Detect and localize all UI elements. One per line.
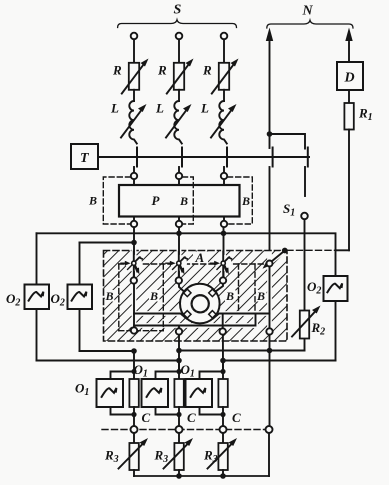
wire left col 2	[79, 243, 81, 285]
svg-text:R1: R1	[358, 106, 373, 124]
wire	[348, 90, 350, 103]
svg-text:N: N	[302, 4, 314, 19]
resistor R3 phase 1	[104, 433, 148, 476]
wire O2 left down	[36, 309, 38, 361]
tick S1	[307, 148, 309, 167]
arrow N-right	[348, 42, 350, 62]
wire N-left to C and bottom	[268, 433, 270, 476]
bus B left segment	[37, 360, 180, 362]
machine	[180, 284, 220, 324]
brush NE	[209, 289, 216, 296]
svg-text:O1: O1	[181, 362, 195, 380]
resistor R2	[300, 311, 309, 339]
N-left circles in block	[267, 261, 273, 267]
svg-text:R3: R3	[203, 448, 218, 466]
wire R1 down	[348, 130, 350, 251]
tick phase 3	[226, 148, 228, 167]
brace N	[267, 20, 353, 28]
label B winding 3	[225, 290, 236, 302]
terminal circle phase 3	[221, 33, 228, 40]
dashed bracket B3	[228, 177, 253, 224]
wire to O2 column	[336, 249, 350, 251]
label B winding 1	[105, 290, 115, 302]
svg-text:R2: R2	[311, 320, 326, 338]
svg-text:O2: O2	[6, 291, 20, 309]
phase 2 column in block	[178, 233, 180, 277]
svg-text:R: R	[157, 63, 167, 78]
terminal circle	[176, 277, 182, 283]
svg-text:T: T	[80, 151, 90, 166]
wire to NE brush	[216, 284, 224, 292]
brush NW	[184, 289, 191, 296]
box O2 right	[324, 276, 348, 301]
wire	[222, 335, 224, 372]
wire	[178, 39, 180, 63]
svg-text:S: S	[174, 3, 182, 18]
arrow N-left	[269, 42, 271, 148]
bus A left segment	[80, 350, 135, 352]
label B winding 4	[256, 290, 267, 302]
svg-text:C: C	[232, 410, 241, 425]
svg-text:B: B	[149, 289, 158, 303]
O1 assembly phase 3	[181, 361, 228, 418]
svg-text:O2: O2	[51, 291, 65, 309]
inner winding dashed lines	[119, 264, 266, 331]
contact arrows phase 1	[121, 252, 142, 278]
resistor R phase 1	[112, 59, 149, 94]
wires to C line	[133, 407, 135, 426]
resistor R3 phase 3	[203, 433, 237, 476]
svg-text:L: L	[155, 101, 164, 116]
tick N-left	[272, 148, 274, 167]
node on dashed top + diagonal arrow	[282, 248, 288, 254]
terminal circle	[176, 328, 182, 334]
svg-text:S1: S1	[283, 201, 295, 219]
P box	[119, 185, 240, 217]
svg-text:L: L	[200, 101, 209, 116]
svg-text:L: L	[110, 101, 119, 116]
svg-text:B: B	[105, 289, 114, 303]
wire	[178, 335, 180, 372]
tick phase 2	[181, 148, 183, 167]
wire y242	[80, 242, 135, 244]
svg-text:O1: O1	[75, 381, 89, 399]
label B winding 2	[149, 290, 160, 302]
svg-text:A: A	[195, 250, 205, 265]
O1 assembly phase 2	[134, 361, 184, 418]
wire	[133, 39, 135, 63]
contact arrows phase 3	[210, 252, 231, 278]
C dashed line	[102, 429, 266, 431]
label A	[193, 252, 208, 265]
bus B right segment	[223, 360, 336, 362]
block A hatched	[104, 251, 288, 342]
node phase3 bus233	[221, 231, 227, 237]
C terminals	[131, 426, 138, 433]
inductor L phase 2	[155, 90, 192, 144]
svg-text:R: R	[112, 63, 122, 78]
brush SW	[184, 311, 191, 318]
svg-text:R3: R3	[104, 448, 119, 466]
wire O2 mid down	[79, 309, 81, 351]
svg-text:B: B	[179, 194, 188, 208]
phase 3 column in block	[223, 233, 225, 277]
wire left col 1	[36, 233, 38, 284]
contact arrows phase 2	[166, 252, 187, 278]
O1 assembly phase 1	[75, 351, 139, 417]
bottom bus	[134, 475, 269, 477]
wire	[133, 284, 135, 328]
stub to bottom circle	[222, 314, 224, 329]
dashed linkage right of block	[287, 249, 336, 251]
terminal circle	[220, 277, 226, 283]
wire S1 upper stub	[304, 167, 306, 196]
wire	[223, 39, 225, 63]
box O2 mid	[68, 285, 93, 310]
box O2 left	[25, 285, 50, 310]
stub to bottom circle	[178, 326, 180, 329]
brace S	[118, 20, 237, 28]
wire w2	[134, 314, 256, 326]
svg-text:B: B	[88, 194, 97, 208]
P box terminals bottom	[133, 217, 135, 221]
svg-text:B: B	[256, 289, 265, 303]
resistor R phase 3	[202, 59, 239, 94]
inductor L phase 3	[200, 90, 237, 144]
bus y233	[37, 233, 336, 276]
P box terminals top	[133, 167, 135, 173]
wire w3 SE brush to N-left	[213, 314, 270, 319]
terminal circle phase 1	[131, 33, 138, 40]
svg-text:C: C	[187, 410, 196, 425]
terminal circle	[131, 327, 137, 333]
resistor R1	[344, 103, 353, 130]
bus	[98, 156, 309, 158]
terminal circle phase 2	[176, 33, 183, 40]
svg-text:B: B	[241, 194, 250, 208]
node phase2 bus233	[176, 231, 182, 237]
node junction N-left branch	[267, 131, 273, 137]
dashed bracket B1	[103, 177, 130, 224]
tick phase 1	[136, 148, 138, 167]
svg-text:P: P	[152, 193, 161, 208]
bus A right segment	[179, 350, 305, 352]
box T	[71, 144, 98, 169]
terminal circle	[220, 328, 226, 334]
node phase1 y242	[131, 240, 137, 246]
svg-text:B: B	[225, 289, 234, 303]
wire to NW brush	[179, 284, 184, 292]
svg-text:R3: R3	[154, 448, 169, 466]
dashed bracket B2	[183, 177, 194, 224]
wire w1 to SW brush	[134, 314, 187, 319]
inductor L phase 1	[110, 90, 147, 144]
svg-text:D: D	[344, 71, 355, 86]
phase 1 column in block	[133, 243, 135, 278]
switch S1 terminal	[301, 213, 308, 220]
white casings for wires inside hatched block	[134, 251, 285, 332]
wire N-left lower	[269, 167, 271, 260]
resistor R phase 2	[157, 59, 194, 94]
resistor R3 phase 2	[154, 433, 194, 476]
terminal circle	[131, 277, 137, 283]
wire S1 down to R2	[304, 219, 306, 310]
svg-text:O1: O1	[134, 362, 148, 380]
svg-text:O2: O2	[307, 279, 321, 297]
box D	[337, 62, 363, 90]
svg-text:R: R	[202, 63, 212, 78]
wire branch to S1	[270, 134, 306, 149]
brush SE	[209, 311, 216, 318]
svg-text:C: C	[142, 410, 151, 425]
